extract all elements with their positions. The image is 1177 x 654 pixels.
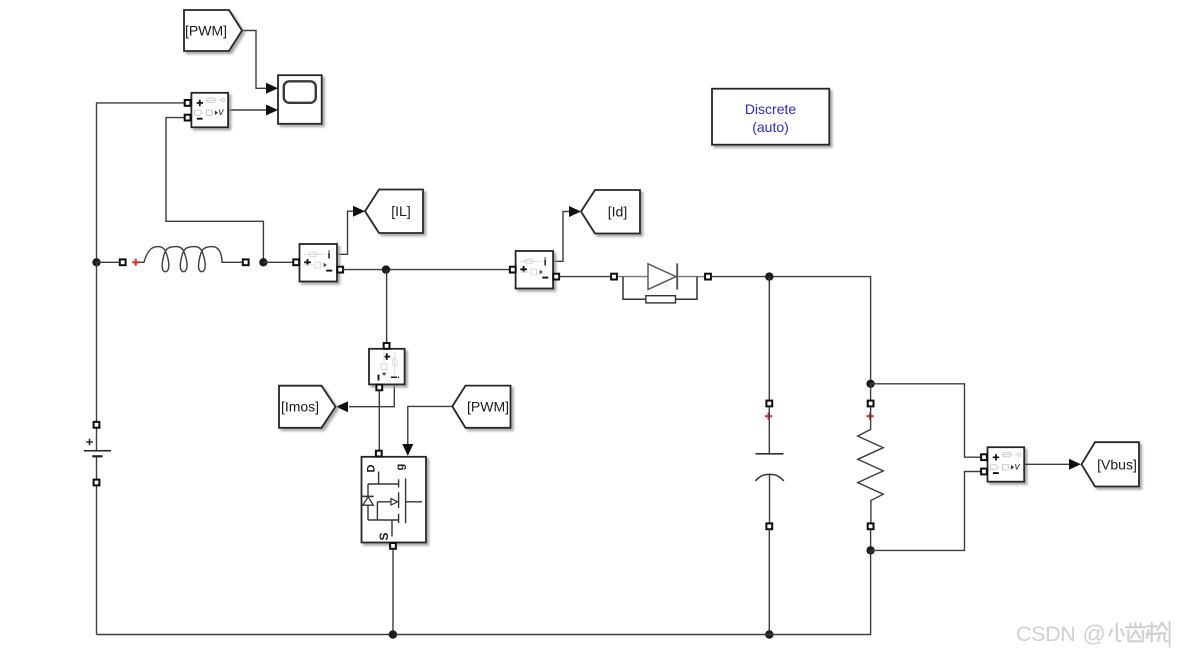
From tag [PWM] bottom (flipped, point left)	[452, 386, 510, 428]
port square diode left	[611, 274, 617, 280]
diode snubber resistor box	[646, 296, 676, 303]
port square capacitor top	[766, 401, 772, 407]
wire: left rail to VM1 +	[97, 103, 186, 262]
arrowhead into Imos tag (pointing left)	[336, 401, 348, 412]
arrowhead into Id tag	[569, 206, 581, 217]
port square MOSFET D	[376, 451, 382, 457]
port square VM1 -	[185, 115, 191, 121]
port square battery -	[94, 480, 100, 486]
voltage measurement VM1	[191, 93, 228, 128]
port square MOSFET S	[390, 543, 396, 549]
wire: resistor bottom node to bottom rail	[97, 550, 871, 634]
voltage measurement VM2	[988, 447, 1025, 482]
wire: VM1 output v to Scope input 2	[228, 109, 266, 111]
junction node: left rail at inductor level	[92, 258, 100, 266]
arrowhead into Scope input 2	[266, 105, 278, 116]
current measurement CM1	[300, 244, 338, 282]
battery + label	[86, 439, 93, 446]
current measurement CM2	[516, 251, 554, 289]
port square inductor right	[243, 259, 249, 265]
Goto tag [Vbus]	[1082, 442, 1140, 486]
diode D1 horizontal line	[616, 276, 706, 278]
svg-text:i: i	[544, 256, 547, 268]
wire: MOSFET source to bottom rail	[392, 549, 394, 635]
DC voltage source battery leads	[96, 262, 98, 634]
wire: VM2 v output to Vbus tag	[1024, 463, 1069, 465]
red polarity + at resistor	[867, 413, 874, 420]
Goto tag [IL]	[365, 190, 423, 234]
junction node capacitor bottom rail	[765, 630, 773, 638]
port square CM3 - (bottom)	[376, 385, 382, 391]
port square diode right	[705, 274, 711, 280]
arrowhead into MOSFET gate (pointing down)	[402, 444, 413, 456]
svg-text:Discrete: Discrete	[745, 101, 797, 117]
MOSFET block	[362, 457, 427, 543]
diode D1 cathode bar	[676, 263, 678, 289]
junction node resistor top	[866, 380, 874, 388]
port square VM2 -	[981, 469, 987, 475]
svg-text:g: g	[395, 464, 407, 471]
svg-text:[Id]: [Id]	[608, 204, 627, 220]
battery short plate	[92, 455, 102, 457]
port square capacitor bottom	[766, 523, 772, 529]
inductor L1 coil	[139, 247, 243, 272]
port square CM2 +	[510, 267, 516, 273]
wire: capacitor to bottom rail	[768, 530, 770, 635]
svg-text:[PWM]: [PWM]	[185, 23, 227, 39]
port square resistor top	[868, 401, 874, 407]
port square VM1 +	[185, 100, 191, 106]
resistor R1 zigzag	[858, 407, 884, 524]
wire: CM1 i output up to IL tag	[337, 211, 354, 254]
wire: From PWM tag to Scope input 1	[242, 31, 267, 89]
port square VM2 +	[981, 454, 987, 460]
port square inductor left	[120, 259, 126, 265]
port square CM1 +	[293, 259, 299, 265]
diode snubber loop	[623, 277, 697, 300]
red polarity + at capacitor	[765, 413, 772, 420]
svg-text:[IL]: [IL]	[391, 203, 410, 219]
wire: node to inductor	[97, 261, 121, 263]
From tag [PWM] top	[184, 10, 242, 51]
svg-text:i: i	[388, 376, 400, 379]
svg-text:D: D	[366, 465, 378, 473]
wire: node down to resistor	[870, 384, 872, 401]
svg-text:i: i	[328, 249, 331, 261]
port square CM1 -	[337, 267, 343, 273]
scope block	[278, 75, 322, 124]
diode D1 triangle	[648, 264, 676, 290]
arrowhead into Scope input 1	[266, 83, 278, 94]
wire: VM1 - down and over to inductor-right node	[166, 118, 263, 263]
junction node MOSFET source on rail	[389, 630, 397, 638]
wire: diode to top-right corner and down to resistor node	[711, 277, 871, 380]
wire: CM2 i output up to Id tag	[553, 212, 570, 262]
Goto tag [Imos] (flipped, point right)	[279, 386, 336, 428]
arrowhead into IL tag	[353, 206, 365, 217]
svg-text:@: @	[1083, 621, 1106, 647]
port square CM2 -	[553, 274, 559, 280]
scope screen	[284, 81, 316, 103]
port square CM3 + (top)	[384, 343, 390, 349]
svg-text:(auto): (auto)	[752, 119, 789, 135]
svg-text:CSDN: CSDN	[1016, 622, 1075, 646]
powergui Discrete block	[712, 89, 829, 145]
wire: CM1 - to CM2 +	[343, 269, 510, 271]
watermark chinese glyphs	[1109, 622, 1169, 647]
junction node resistor bottom	[866, 546, 874, 554]
wire: node to CM1	[263, 261, 294, 263]
red polarity + at inductor	[132, 259, 139, 266]
wire: resistor to bottom node	[870, 530, 872, 551]
wire: CM3 - down to MOSFET drain	[378, 391, 380, 452]
current measurement CM3 (rotated 90 cw)	[369, 349, 405, 385]
wire: Imos signal from CM3	[349, 385, 394, 407]
arrowhead into Vbus tag	[1069, 459, 1081, 470]
svg-text:S: S	[377, 532, 391, 540]
wire: node down to CM3	[386, 270, 388, 343]
Goto tag [Id]	[581, 190, 640, 234]
junction node capacitor top	[765, 272, 773, 280]
port square resistor bottom	[868, 523, 874, 529]
wire: resistor node to VM2 +	[871, 384, 981, 457]
capacitor C1	[755, 407, 784, 524]
battery long plate	[84, 450, 111, 452]
svg-text:[Imos]: [Imos]	[281, 399, 319, 415]
junction node: inductor right	[259, 258, 267, 266]
svg-text:[PWM]: [PWM]	[467, 398, 509, 414]
watermark CSDN	[1016, 621, 1106, 647]
wire: CM2 - to diode	[559, 276, 611, 278]
junction node above MOSFET branch	[382, 265, 390, 273]
port square battery +	[94, 422, 100, 428]
wire: PWM tag to MOSFET gate	[408, 406, 453, 444]
wire: node down to capacitor	[768, 277, 770, 401]
wire: resistor bottom node to VM2 -	[871, 472, 981, 551]
svg-text:[Vbus]: [Vbus]	[1097, 456, 1137, 472]
